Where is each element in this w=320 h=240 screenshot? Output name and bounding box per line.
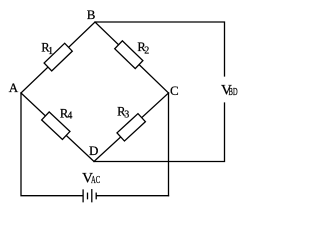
svg-text:C: C — [170, 83, 179, 98]
svg-text:B: B — [87, 7, 96, 22]
svg-text:2: 2 — [144, 46, 149, 57]
svg-text:AC: AC — [91, 174, 100, 186]
svg-text:D: D — [89, 143, 98, 158]
svg-text:3: 3 — [124, 110, 129, 121]
svg-text:4: 4 — [67, 110, 72, 121]
svg-text:BD: BD — [229, 86, 238, 98]
svg-text:A: A — [9, 80, 19, 95]
svg-text:1: 1 — [48, 46, 53, 57]
